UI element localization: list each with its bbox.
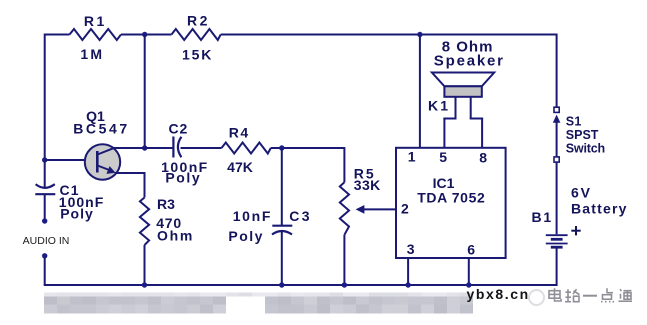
svg-text:Ohm: Ohm <box>157 228 194 244</box>
svg-text:Poly: Poly <box>228 228 264 244</box>
svg-text:BC547: BC547 <box>73 120 130 136</box>
svg-text:8: 8 <box>479 150 488 166</box>
wire speaker to pin 5 <box>443 118 445 148</box>
wire IC pin 3 to bottom rail <box>407 258 409 285</box>
svg-text:6: 6 <box>467 242 476 258</box>
wire left rail upper <box>44 34 46 161</box>
node pin6 bottom junction <box>466 282 471 287</box>
svg-text:Speaker: Speaker <box>434 53 505 70</box>
battery B1 plate short 1 <box>551 238 563 241</box>
svg-text:15K: 15K <box>182 47 213 63</box>
svg-text:C2: C2 <box>169 120 189 136</box>
capacitor C2 straight plate <box>172 137 174 158</box>
transistor Q1 body <box>85 144 120 179</box>
svg-text:R3: R3 <box>157 196 175 212</box>
wire emitter <box>115 173 145 198</box>
svg-text:IC1: IC1 <box>433 175 455 191</box>
node audio-in lower terminal <box>42 253 47 258</box>
wire IC pin 2 arrowhead <box>356 205 365 214</box>
svg-text:2: 2 <box>401 200 410 216</box>
svg-text:B1: B1 <box>532 209 554 225</box>
battery B1 plate long 1 <box>546 234 568 236</box>
node C3 bottom junction <box>279 282 284 287</box>
speaker stem left <box>455 97 457 119</box>
wire left rail to C1 <box>44 160 46 188</box>
speaker stem right <box>470 97 472 119</box>
capacitor C1 straight plate <box>35 193 55 195</box>
svg-text:6V: 6V <box>571 185 592 201</box>
wire C2 to R4 <box>181 147 222 149</box>
svg-text:R2: R2 <box>187 12 210 28</box>
wire top rail left segment <box>45 34 70 36</box>
svg-text:Battery: Battery <box>571 201 628 217</box>
battery plus sign <box>571 226 580 235</box>
watermark mosaic strip <box>44 293 473 314</box>
resistor R4 <box>222 143 271 154</box>
wire IC pin 6 to bottom rail <box>468 258 470 285</box>
resistor R2 <box>172 29 221 40</box>
wire bottom rail <box>44 284 557 286</box>
svg-text:5: 5 <box>439 149 448 165</box>
capacitor C1 curved plate <box>36 184 55 188</box>
node collector-C2 junction <box>142 145 147 150</box>
svg-text:1: 1 <box>408 149 417 165</box>
wire C3 to bottom rail <box>281 231 283 286</box>
capacitor C3 straight plate <box>272 225 292 227</box>
transistor Q1 collector lead <box>98 148 114 154</box>
svg-text:ybx8.cn: ybx8.cn <box>467 286 530 302</box>
wire battery to bottom rail <box>556 248 558 287</box>
wire base <box>45 159 97 161</box>
node R1-R2 junction <box>142 32 147 37</box>
svg-text:K1: K1 <box>428 98 450 114</box>
wire IC pin 1 to top rail <box>419 35 421 148</box>
node pin3 bottom junction <box>405 282 410 287</box>
svg-text:1M: 1M <box>80 46 104 62</box>
wire switch to battery <box>556 162 558 234</box>
wire top rail between R1 and R2 <box>121 34 172 36</box>
transistor Q1 base bar <box>96 151 99 173</box>
wire speaker to pin 8 <box>481 118 483 148</box>
transistor Q1 emitter lead <box>98 166 111 171</box>
capacitor C3 curved plate <box>272 231 292 235</box>
speaker step right <box>470 118 483 120</box>
watermark ring <box>529 290 544 305</box>
svg-text:R1: R1 <box>84 13 107 29</box>
wire IC pin 2 wiper <box>362 208 396 210</box>
transistor Q1 emitter arrowhead <box>106 166 115 174</box>
wire right rail to switch <box>556 34 558 108</box>
node R4-C3-R5 junction <box>279 145 284 150</box>
node pin1 top junction <box>417 32 422 37</box>
svg-text:47K: 47K <box>227 159 253 175</box>
svg-text:C3: C3 <box>289 208 312 224</box>
switch S1 blade <box>556 122 558 157</box>
switch S1 bottom terminal <box>554 157 559 162</box>
resistor R5 (volume) <box>340 182 349 235</box>
resistor R1 <box>70 29 122 40</box>
switch S1 top terminal <box>554 107 559 112</box>
svg-text:Poly: Poly <box>165 170 201 186</box>
speaker step left <box>443 118 456 120</box>
svg-text:3: 3 <box>407 241 416 257</box>
wire collector node <box>112 147 173 149</box>
node base junction <box>42 157 47 162</box>
svg-text:Switch: Switch <box>566 142 605 156</box>
op-amp IC1 TDA7052 body <box>396 148 506 258</box>
svg-text:Poly: Poly <box>60 206 94 222</box>
svg-text:10nF: 10nF <box>233 208 272 224</box>
resistor R3 <box>140 198 149 246</box>
svg-text:AUDIO IN: AUDIO IN <box>23 235 70 247</box>
watermark chinese text <box>549 288 632 302</box>
wire top rail right segment <box>221 34 557 36</box>
capacitor C2 curved plate <box>178 137 182 157</box>
svg-text:TDA 7052: TDA 7052 <box>417 190 485 206</box>
wire R5 to bottom rail <box>343 235 345 285</box>
battery B1 plate long 2 <box>546 243 568 245</box>
svg-text:R4: R4 <box>229 125 250 141</box>
wire R1R2-junction down to collector node <box>144 35 146 149</box>
node R5 bottom junction <box>342 282 347 287</box>
wire corner down to R5 <box>343 147 345 182</box>
node audio-in upper terminal <box>42 218 47 223</box>
switch S1 blade arrowhead <box>553 115 561 123</box>
wire junction down to C3 <box>281 148 283 225</box>
svg-text:SPST: SPST <box>566 128 599 142</box>
speaker K1 cone <box>432 73 494 87</box>
speaker K1 magnet <box>444 86 481 97</box>
wire audio terminal to bottom rail <box>44 256 46 285</box>
svg-text:S1: S1 <box>566 115 582 129</box>
wire R3 to bottom rail <box>144 245 146 285</box>
node R3 bottom junction <box>142 282 147 287</box>
wire R4 to R5 corner <box>271 147 345 149</box>
svg-text:33K: 33K <box>354 177 381 193</box>
battery B1 plate short 2 <box>551 246 563 249</box>
wire C1 to audio terminal <box>44 194 46 221</box>
